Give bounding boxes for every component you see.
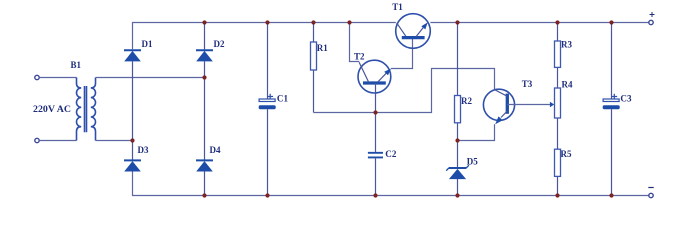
zener diode D5 bbox=[446, 141, 469, 196]
diode D1 bbox=[124, 50, 141, 159]
junction dot top T2 collector bbox=[347, 20, 351, 24]
junction dot top D2 bbox=[202, 20, 206, 24]
svg-text:C3: C3 bbox=[620, 94, 632, 104]
wire secondary bottom to bridge bbox=[96, 140, 133, 142]
diode D2 bbox=[196, 23, 213, 160]
transistor T1 bbox=[396, 14, 431, 49]
wire base drive node to T3 collector bbox=[314, 69, 495, 113]
label + output bbox=[650, 12, 655, 17]
AC input terminal top bbox=[35, 75, 39, 79]
junction dot bottom C1 bbox=[265, 193, 269, 197]
svg-text:R3: R3 bbox=[561, 40, 572, 50]
junction dot top R3 bbox=[555, 20, 559, 24]
wire AC neutral bbox=[39, 140, 76, 142]
wire T2 emitter to T1 base bbox=[391, 39, 413, 69]
svg-text:C2: C2 bbox=[385, 149, 397, 159]
capacitor C2 bbox=[368, 113, 383, 196]
resistor R3 bbox=[555, 23, 561, 68]
junction dot zener node bbox=[455, 138, 459, 142]
resistor R1 bbox=[311, 23, 317, 113]
transistor T2 bbox=[358, 60, 391, 112]
potentiometer R4 bbox=[555, 67, 561, 118]
wire T3 emitter to zener node bbox=[458, 124, 495, 140]
junction dot bottom C3 bbox=[609, 193, 613, 197]
node AC1 junction bbox=[130, 138, 134, 142]
svg-text:R5: R5 bbox=[561, 149, 572, 159]
svg-text:D4: D4 bbox=[210, 145, 221, 155]
junction dot top C3 bbox=[609, 20, 613, 24]
label - output bbox=[648, 187, 653, 189]
node AC2 junction bbox=[202, 75, 206, 79]
svg-text:T2: T2 bbox=[354, 51, 365, 61]
output terminal negative bbox=[649, 193, 653, 197]
AC input terminal bottom bbox=[35, 138, 39, 142]
junction dot bottom C2 bbox=[373, 193, 377, 197]
wire secondary top to bridge bbox=[96, 77, 205, 79]
diode D3 bbox=[124, 160, 141, 171]
svg-text:220V AC: 220V AC bbox=[33, 104, 71, 115]
svg-text:C1: C1 bbox=[277, 94, 289, 104]
svg-text:D3: D3 bbox=[138, 145, 149, 155]
svg-text:T3: T3 bbox=[522, 79, 533, 89]
svg-text:R4: R4 bbox=[562, 80, 573, 90]
junction dot bottom R5 bbox=[555, 193, 559, 197]
svg-text:R1: R1 bbox=[317, 43, 328, 53]
wire T3 base to R4 wiper bbox=[507, 102, 554, 108]
wire top positive rail (left of T1) bbox=[133, 23, 396, 50]
junction dot top R1 bbox=[311, 20, 315, 24]
transformer B1 bbox=[76, 78, 95, 141]
wire T2 collector to rail bbox=[350, 23, 360, 62]
junction dot top R2 bbox=[455, 20, 459, 24]
junction dot top C1 bbox=[265, 20, 269, 24]
junction dot bottom D4 bbox=[202, 193, 206, 197]
wire AC live bbox=[39, 77, 76, 79]
svg-text:D5: D5 bbox=[467, 156, 478, 166]
svg-text:B1: B1 bbox=[71, 60, 82, 70]
svg-text:T1: T1 bbox=[392, 2, 403, 12]
output terminal positive bbox=[649, 20, 653, 24]
junction dot bottom D5 bbox=[455, 193, 459, 197]
svg-text:D1: D1 bbox=[142, 39, 153, 49]
resistor R2 bbox=[455, 23, 461, 141]
diode D4 bbox=[196, 160, 213, 195]
capacitor C3 bbox=[603, 23, 620, 196]
svg-text:D2: D2 bbox=[214, 39, 225, 49]
transistor T3 bbox=[483, 89, 514, 124]
wire top positive rail (right of T1) bbox=[430, 22, 648, 24]
capacitor C1 bbox=[259, 23, 276, 196]
resistor R5 bbox=[555, 118, 561, 196]
svg-text:R2: R2 bbox=[461, 96, 472, 106]
wire bottom negative rail bbox=[133, 171, 649, 195]
junction dot base drive node bbox=[373, 110, 377, 114]
